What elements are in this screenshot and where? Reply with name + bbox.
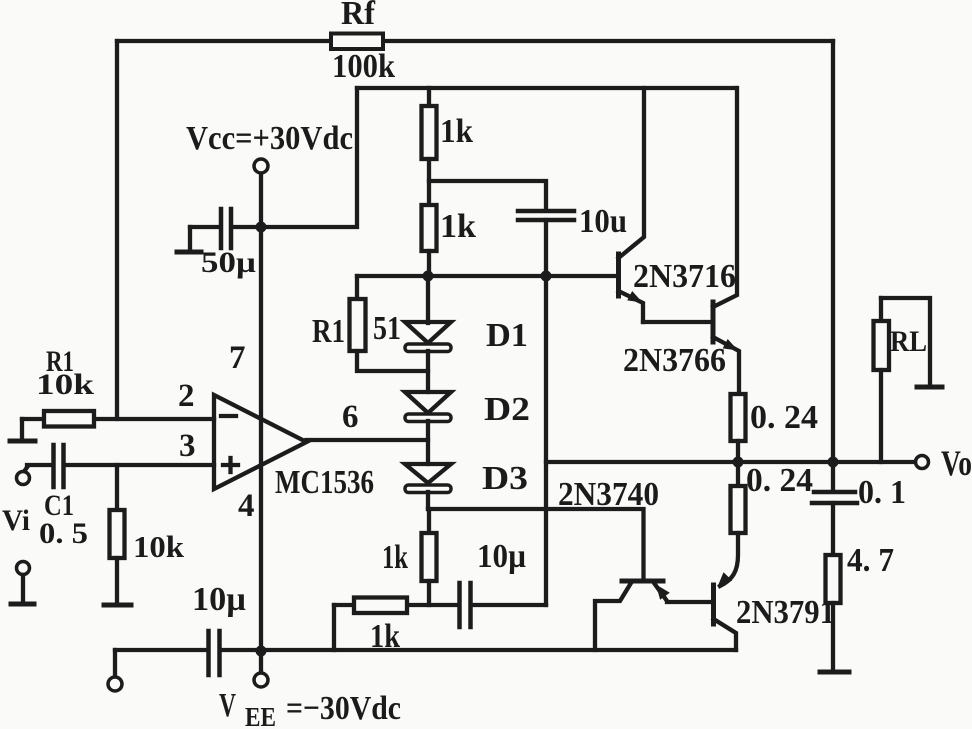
resistor 10k shunt vertical	[115, 465, 119, 510]
svg-text:Vcc=+30Vdc: Vcc=+30Vdc	[186, 120, 353, 157]
wire node B horizontal	[357, 274, 619, 278]
node VEE junction dot	[256, 646, 267, 657]
capacitor C1 plates	[51, 445, 56, 487]
transistor Q4 collector	[714, 619, 737, 650]
svg-text:51: 51	[373, 310, 401, 347]
svg-text:0. 24: 0. 24	[750, 399, 818, 436]
svg-text:4: 4	[238, 488, 255, 524]
svg-text:=−30Vdc: =−30Vdc	[286, 690, 401, 727]
wire noninverting input (pin 3) left of C1	[27, 463, 52, 467]
node Vcc junction dot	[256, 222, 267, 233]
svg-text:D3: D3	[482, 460, 528, 497]
resistor R1 10k input	[44, 411, 94, 427]
diode D2	[405, 392, 451, 413]
wire noninverting input (pin 3) right of C1	[65, 463, 214, 467]
wire 0.1 to 4.7	[831, 503, 835, 555]
svg-text:RL: RL	[890, 325, 927, 358]
transistor Q1 2N3716 bar	[616, 254, 621, 296]
svg-text:V: V	[219, 687, 236, 724]
wire Vcc to rail riser	[261, 88, 357, 227]
terminal VEE left circle	[113, 650, 117, 676]
svg-text:EE: EE	[245, 702, 276, 729]
terminal VEE circle	[259, 651, 263, 673]
svg-text:6: 6	[342, 399, 359, 435]
wire bootstrap tap to 10u cap	[429, 181, 546, 210]
svg-text:Vi: Vi	[2, 504, 30, 537]
resistor 1k bottom horizontal	[354, 598, 407, 614]
wire 50u cap right	[233, 225, 259, 229]
resistor 1k top first	[427, 88, 431, 106]
svg-text:1k: 1k	[440, 113, 473, 150]
op-amp plus sign	[223, 463, 238, 467]
wire op-amp output (pin 6)	[307, 438, 429, 442]
svg-text:10µ: 10µ	[477, 538, 526, 575]
wire output rail	[546, 460, 916, 464]
resistor 0.24 bottom	[736, 462, 740, 486]
transistor Q4 emitter from 0.24	[720, 533, 738, 586]
svg-text:10u: 10u	[579, 203, 627, 240]
svg-text:2: 2	[178, 378, 195, 414]
svg-text:0. 1: 0. 1	[858, 474, 906, 511]
node output dot left	[733, 457, 744, 468]
transistor Q3 emitter	[654, 583, 714, 602]
svg-text:3: 3	[179, 428, 196, 464]
ground bar 50u	[177, 250, 201, 255]
node output dot right	[828, 457, 839, 468]
wire 50u cap left	[190, 225, 219, 229]
svg-text:Rf: Rf	[341, 0, 376, 32]
transistor Q2 collector	[713, 88, 737, 307]
wire 0.24 top to output rail	[736, 441, 740, 462]
terminal Vo circle	[916, 456, 929, 469]
svg-text:0. 5: 0. 5	[39, 517, 88, 550]
svg-text:10k: 10k	[36, 368, 94, 401]
wire VEE rail left segment	[115, 648, 206, 652]
terminal Vi- circle	[17, 562, 30, 575]
transistor Q1 emitter	[619, 291, 644, 322]
svg-text:7: 7	[229, 340, 246, 376]
ground bar RL	[917, 385, 942, 390]
svg-text:10k: 10k	[133, 529, 185, 564]
wire 10u bottom to bootstrap	[472, 603, 546, 607]
capacitor 10u VEE plates	[206, 631, 211, 675]
capacitor 0.1 plates	[814, 490, 855, 495]
wire inverting input (pin 2)	[22, 417, 214, 421]
transistor Q2 2N3766 bar	[711, 302, 716, 342]
wire 1k second to node B	[427, 251, 431, 276]
svg-text:4. 7: 4. 7	[847, 542, 894, 579]
wire 4.7 to ground	[831, 603, 835, 670]
wire D2 to D3	[426, 421, 430, 464]
resistor 1k bottom vertical	[427, 509, 431, 533]
transistor Q3 2N3740 bar	[622, 579, 663, 584]
wire bootstrap vertical	[544, 220, 548, 605]
svg-text:D2: D2	[484, 391, 530, 428]
op-amp power vertical (pins 7/4)	[259, 173, 263, 651]
capacitor 0.1 stub	[831, 462, 835, 490]
wire D1 to D2	[426, 351, 430, 392]
wire top feedback rail	[117, 39, 833, 43]
svg-text:2N3766: 2N3766	[623, 342, 726, 379]
ground bar 4.7	[820, 670, 849, 675]
resistor RL	[879, 298, 883, 321]
svg-text:2N3740: 2N3740	[558, 476, 659, 513]
transistor Q4 2N3791 bar	[711, 585, 716, 624]
wire VEE rail right segment	[222, 648, 736, 652]
resistor 4.7	[826, 555, 841, 603]
transistor Q2 emitter	[713, 337, 739, 394]
terminal Vi+ circle	[17, 472, 30, 485]
wire RL top bracket	[881, 298, 930, 386]
ground bar at R1	[10, 439, 35, 444]
op-amp minus sign	[221, 414, 236, 418]
svg-text:Vo: Vo	[941, 443, 972, 483]
ground stub at R1	[20, 419, 24, 440]
capacitor 10u bottom plates	[457, 583, 462, 627]
resistor 1k top second	[422, 205, 437, 251]
node B dot at bootstrap	[541, 271, 552, 282]
resistor R1 51 vertical	[355, 276, 359, 299]
resistor Rf	[331, 34, 383, 50]
svg-text:D1: D1	[486, 317, 528, 354]
capacitor 10u top plates	[518, 209, 574, 214]
svg-text:R1: R1	[312, 313, 345, 350]
wire node D horizontal	[334, 603, 458, 607]
ground bar 10k shunt	[104, 603, 131, 608]
svg-text:1k: 1k	[440, 208, 476, 245]
wire between 1k resistors	[427, 159, 431, 205]
transistor Q1 emitter arrow	[627, 291, 642, 303]
ground stub 50u	[188, 227, 192, 251]
transistor Q2 emitter arrow	[723, 339, 738, 351]
transistor Q4 emitter arrow	[718, 572, 733, 587]
transistor Q1 collector	[619, 88, 645, 258]
svg-text:1k: 1k	[382, 539, 408, 576]
wire node D left drop	[332, 605, 336, 650]
wire right feedback vertical	[831, 41, 835, 462]
diode D3	[405, 464, 451, 483]
svg-text:100k: 100k	[332, 48, 395, 85]
terminal Vcc circle	[254, 159, 268, 173]
svg-text:50µ: 50µ	[201, 246, 256, 279]
wire node C horizontal to 2N3740 base	[428, 509, 644, 581]
resistor 0.24 top	[731, 394, 746, 441]
node B dot at diode chain	[423, 271, 434, 282]
transistor Q3 emitter arrow	[656, 585, 670, 600]
transistor Q3 collector	[595, 583, 631, 650]
wire Q1 emitter to Q2 base	[643, 320, 713, 324]
wire Vi+ connector	[23, 466, 28, 473]
wire Vi- stub	[21, 575, 25, 602]
svg-text:2N3716: 2N3716	[633, 258, 736, 295]
op-amp U1 triangle	[214, 395, 307, 489]
capacitor 50u plates	[219, 209, 224, 248]
wire RL bottom	[879, 370, 883, 462]
svg-text:MC1536: MC1536	[275, 464, 374, 501]
wire left feedback vertical	[115, 41, 119, 419]
svg-text:10µ: 10µ	[192, 581, 246, 618]
wire D3 to node C	[426, 492, 430, 509]
svg-text:2N3791: 2N3791	[736, 594, 835, 631]
diode D1	[426, 276, 430, 323]
ground bar Vi-	[11, 602, 34, 607]
wire Vcc rail	[357, 86, 736, 90]
svg-text:0. 24: 0. 24	[746, 462, 813, 499]
